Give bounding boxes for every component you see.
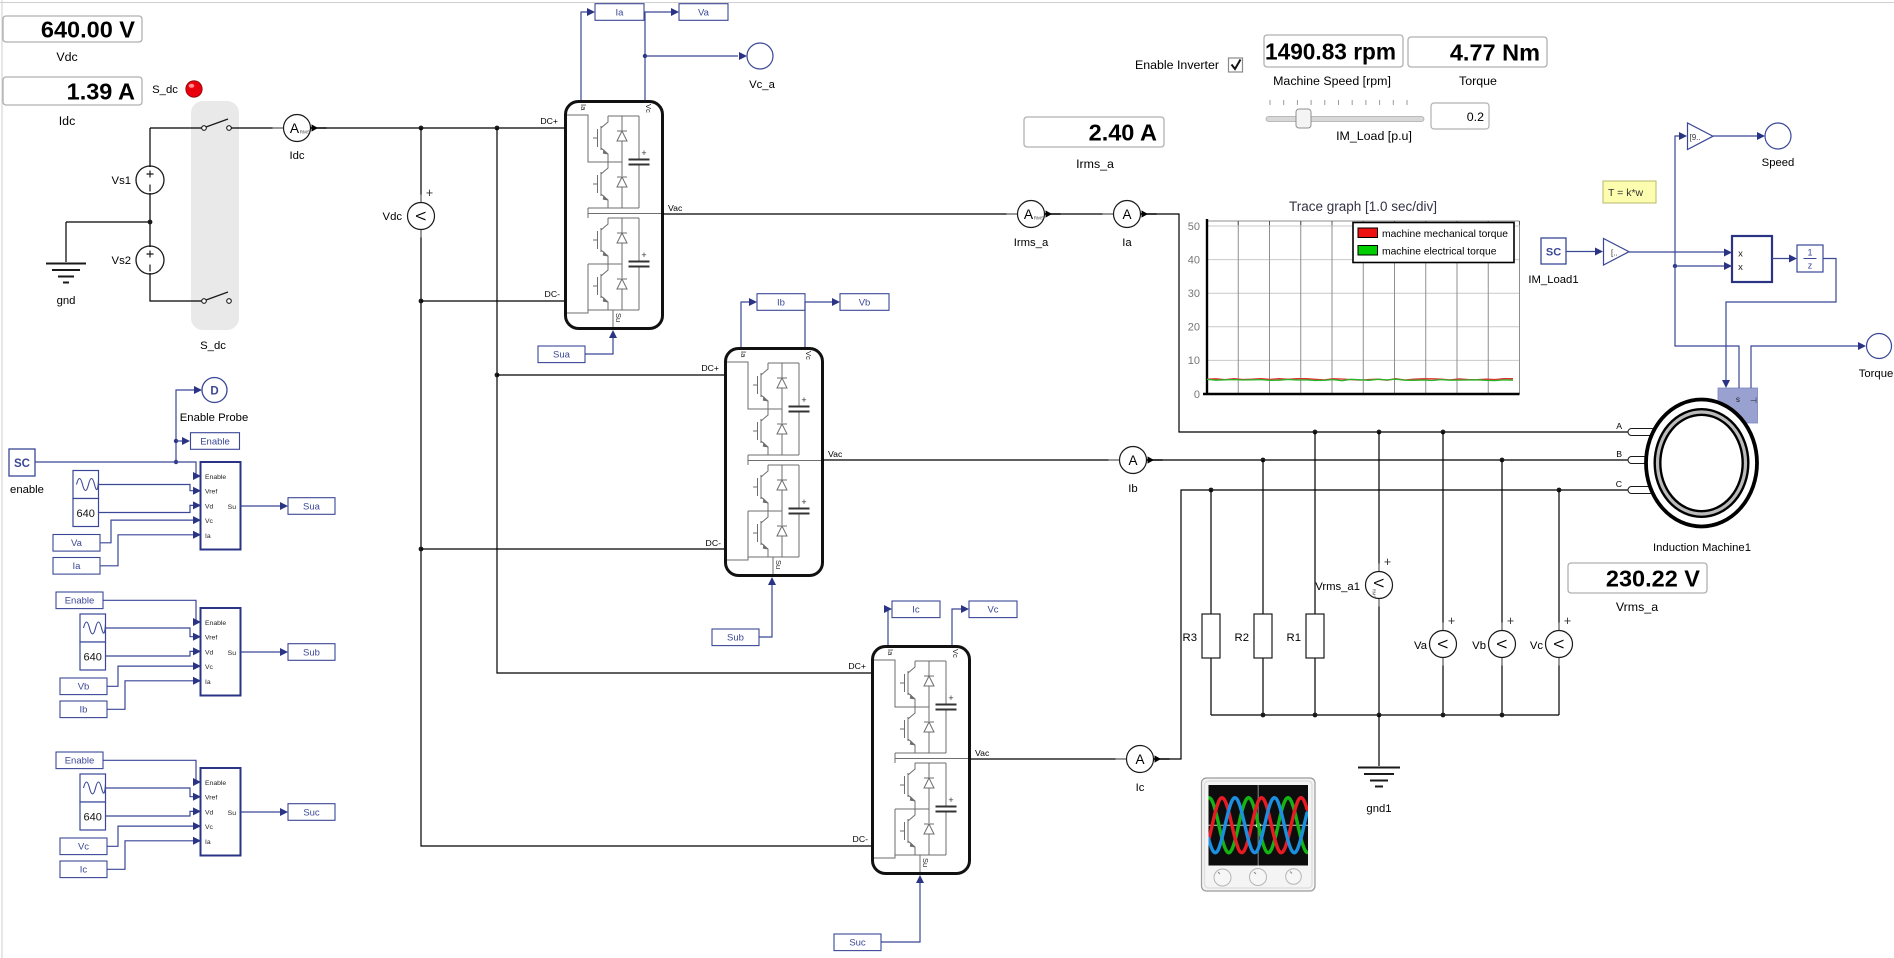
wire 640 to modulator C — [106, 811, 200, 816]
node A bus Va — [1441, 430, 1446, 435]
wire Vb to modulator B — [107, 666, 199, 686]
wire Enable to modulator B — [103, 600, 199, 622]
svg-text:S_dc: S_dc — [200, 340, 226, 352]
svg-text:Ic: Ic — [912, 605, 920, 616]
wire DC- bus leg A — [421, 300, 564, 302]
LED indicator red — [186, 81, 202, 97]
from tag Sub — [712, 629, 759, 646]
svg-text:1: 1 — [1807, 248, 1812, 258]
wire enable to tag — [176, 440, 182, 442]
arrow into Va tag — [671, 8, 679, 16]
wire R1 bottom — [1314, 658, 1316, 715]
inverter leg A (half-bridge block) — [566, 102, 663, 329]
wire IM_Load1 to gain — [1566, 251, 1596, 253]
arrow into Speed outport — [1757, 132, 1765, 140]
arrow modulator C Vref — [193, 793, 201, 801]
arrow modulator C enable — [193, 778, 201, 786]
node DC- leg B junction — [419, 547, 424, 552]
from tag Vb — [60, 678, 107, 695]
goto tag Ic — [892, 601, 940, 618]
svg-text:DC+: DC+ — [701, 363, 719, 373]
svg-text:V: V — [1435, 639, 1450, 648]
svg-text:RMS: RMS — [1034, 216, 1044, 221]
scope trace blue — [1209, 798, 1308, 853]
svg-text:0.2: 0.2 — [1467, 110, 1484, 124]
wire Vb meter branch — [1501, 460, 1503, 715]
source block SC enable — [9, 449, 35, 476]
svg-text:40: 40 — [1188, 254, 1200, 266]
svg-text:Vb: Vb — [859, 297, 871, 308]
wire sine to modulator B — [106, 628, 200, 637]
wire DC- bus leg B — [421, 548, 724, 550]
arrow modulator A Vref — [193, 487, 201, 495]
wire R3 bottom — [1210, 658, 1212, 715]
voltmeter Vc — [1546, 614, 1573, 666]
svg-text:R3: R3 — [1183, 632, 1197, 644]
svg-text:Vref: Vref — [205, 489, 217, 496]
svg-text:Ic: Ic — [80, 865, 88, 876]
svg-text:A: A — [1024, 207, 1034, 222]
wire Vac C to Ic meter — [970, 758, 1126, 760]
arrow into torque gain — [1595, 248, 1603, 256]
multiplier block — [1732, 236, 1772, 282]
svg-text:Vc: Vc — [78, 842, 89, 853]
svg-text:Enable: Enable — [205, 474, 226, 481]
svg-text:2.40 A: 2.40 A — [1089, 119, 1157, 145]
arrow into machine torque port — [1722, 380, 1730, 388]
svg-text:Vd: Vd — [205, 649, 214, 656]
svg-text:Ic: Ic — [1136, 782, 1145, 794]
svg-text:640: 640 — [77, 508, 95, 520]
trace green machine electrical torque — [1207, 379, 1513, 381]
from tag Ic — [60, 861, 107, 878]
svg-text:C: C — [1616, 479, 1622, 489]
svg-text:+: + — [1507, 614, 1514, 628]
probe D circle — [202, 378, 227, 403]
constant block IM_Load1 — [1528, 238, 1578, 286]
svg-text:Speed: Speed — [1762, 157, 1795, 169]
node A bus Vrms_a1 — [1377, 430, 1382, 435]
modulator block C — [201, 768, 241, 856]
outport Speed — [1765, 123, 1791, 149]
svg-text:Sub: Sub — [303, 647, 320, 658]
constant 640 Vd (A) — [73, 499, 99, 527]
node DC+ at Vdc meter — [419, 126, 424, 131]
wire delay feedback to machine torque — [1726, 259, 1836, 382]
arrow into Sua tag — [280, 502, 288, 510]
svg-text:SC: SC — [1546, 247, 1561, 259]
svg-text:Vc: Vc — [205, 824, 214, 831]
svg-text:A: A — [1135, 752, 1144, 767]
goto tag Ia — [595, 4, 644, 21]
node enable to tag — [174, 439, 178, 443]
node speed to multiplier — [1673, 264, 1677, 268]
wire Va to modulator A — [100, 520, 199, 543]
svg-text:Vc: Vc — [205, 664, 214, 671]
scope knobs — [1214, 869, 1301, 887]
svg-text:[9..: [9.. — [1690, 133, 1701, 142]
note T=k*w — [1603, 181, 1656, 203]
svg-text:gnd1: gnd1 — [1366, 803, 1391, 815]
svg-text:Enable Probe: Enable Probe — [180, 412, 248, 424]
svg-text:+: + — [426, 186, 433, 200]
svg-text:enable: enable — [10, 484, 44, 496]
wire modulator B output — [241, 651, 282, 653]
svg-text:V: V — [1551, 639, 1566, 648]
node DC- leg A junction — [419, 299, 424, 304]
svg-text:Enable: Enable — [205, 780, 226, 787]
svg-text:50: 50 — [1188, 221, 1200, 233]
inverter leg B (half-bridge block) — [726, 349, 823, 576]
arrow into Torque outport — [1858, 342, 1866, 350]
goto tag Vb — [840, 294, 889, 311]
wire Sua to leg A — [585, 336, 613, 354]
goto tag Enable — [191, 433, 240, 450]
svg-text:Enable Inverter: Enable Inverter — [1135, 58, 1219, 72]
svg-text:DC-: DC- — [853, 834, 869, 844]
svg-text:R1: R1 — [1287, 632, 1301, 644]
voltmeter Va — [1430, 614, 1457, 666]
arrow Suc into leg C Su — [916, 875, 924, 883]
svg-text:Suc: Suc — [303, 807, 320, 818]
wire leg A Vc vertical — [645, 12, 671, 100]
svg-text:x: x — [1738, 249, 1743, 260]
wire gnd to Vs junction — [66, 222, 149, 262]
from tag Vc — [60, 838, 107, 855]
svg-text:Su: Su — [228, 650, 237, 657]
svg-text:A: A — [1616, 421, 1622, 431]
node Vc_a branch — [643, 54, 647, 58]
modulator block B — [201, 608, 241, 696]
svg-text:+: + — [1384, 555, 1391, 569]
wire Ib meter to machine B — [1147, 459, 1629, 461]
svg-text:230.22 V: 230.22 V — [1606, 565, 1700, 591]
wire speed to multiplier — [1675, 265, 1724, 267]
arrow into Sub tag — [280, 648, 288, 656]
wire Vc meter branch — [1558, 490, 1560, 715]
svg-text:+: + — [1564, 614, 1571, 628]
svg-text:T = k*w: T = k*w — [1608, 187, 1644, 199]
wire Suc to leg C — [881, 881, 920, 942]
arrow into multiplier in2 — [1724, 262, 1732, 270]
wire 640 to modulator A — [99, 505, 200, 512]
inverter leg C (half-bridge block) — [873, 647, 970, 874]
arrow into speed gain — [1679, 132, 1687, 140]
arrow modulator B Vref — [193, 633, 201, 641]
wire R2 top — [1262, 460, 1264, 614]
from tag Ia — [53, 558, 100, 575]
svg-text:Vs2: Vs2 — [112, 255, 131, 267]
svg-text:B: B — [1616, 449, 1622, 459]
svg-text:Torque: Torque — [1459, 74, 1497, 88]
svg-text:z: z — [1808, 261, 1813, 271]
svg-text:Vd: Vd — [205, 809, 214, 816]
wire sine to modulator A — [99, 485, 200, 491]
wire Vc to modulator C — [107, 826, 199, 846]
svg-text:Vc: Vc — [1530, 640, 1544, 652]
outport Torque — [1867, 334, 1892, 359]
svg-text:Vdc: Vdc — [383, 211, 403, 223]
svg-text:D: D — [210, 386, 218, 398]
svg-text:Vb: Vb — [78, 682, 90, 693]
wire to scope Vc_a — [645, 55, 738, 57]
node B bus R2 — [1261, 458, 1266, 463]
svg-text:s: s — [1736, 396, 1740, 405]
arrow Sub into leg B Su — [768, 577, 776, 585]
display Machine Speed — [1264, 35, 1403, 88]
wire Vs1 to switch top — [150, 127, 203, 129]
gain block speed scale — [1688, 123, 1714, 150]
svg-text:640: 640 — [84, 652, 102, 664]
goto tag Sua — [288, 498, 335, 515]
arrow into Vc tag — [961, 605, 969, 613]
scope port Vc_a — [747, 43, 773, 69]
slider IM_Load ticks — [1270, 100, 1407, 105]
svg-text:Enable: Enable — [65, 596, 95, 607]
svg-text:Torque: Torque — [1859, 368, 1894, 380]
display Irms_a 2.40 A — [1024, 117, 1164, 171]
wire gnd1 stem — [1378, 715, 1380, 766]
wire R1 top — [1314, 432, 1316, 614]
svg-text:V: V — [413, 211, 428, 220]
machine stator port stub C — [1628, 487, 1655, 494]
ground gnd — [46, 264, 86, 308]
svg-text:Enable: Enable — [205, 620, 226, 627]
wire R3 top — [1210, 490, 1212, 614]
svg-text:1490.83 rpm: 1490.83 rpm — [1265, 38, 1396, 64]
arrow modulator C Ia — [193, 837, 201, 845]
svg-text:Idc: Idc — [289, 150, 304, 162]
wire Vac B to Ib meter — [823, 459, 1119, 461]
svg-text:Su: Su — [228, 504, 237, 511]
arrow into Ic tag — [884, 605, 892, 613]
slider value box 0.2 — [1431, 103, 1489, 129]
goto tag Suc — [288, 804, 335, 821]
svg-text:Ib: Ib — [777, 297, 785, 308]
delay block 1/z — [1797, 245, 1823, 272]
wire DC+ bus leg B — [497, 374, 724, 376]
node Vs midpoint — [148, 220, 153, 225]
wire modulator C output — [241, 811, 282, 813]
svg-text:Vac: Vac — [828, 449, 843, 459]
node DC+ leg B junction — [495, 373, 500, 378]
arrow into Vb tag — [832, 298, 840, 306]
goto tag Vc — [969, 601, 1017, 618]
svg-text:⊢: ⊢ — [1750, 396, 1757, 405]
checkbox Enable Inverter — [1229, 58, 1243, 72]
svg-text:10: 10 — [1188, 355, 1200, 367]
svg-text:Irms_a: Irms_a — [1076, 157, 1114, 171]
svg-text:A: A — [290, 121, 300, 136]
arrow modulator B Vc — [193, 662, 201, 670]
svg-text:Vb: Vb — [1472, 640, 1486, 652]
svg-text:DC+: DC+ — [848, 661, 866, 671]
voltage source Vs1 — [112, 166, 164, 194]
arrow modulator C Vc — [193, 822, 201, 830]
induction machine body — [1646, 400, 1757, 527]
scope trace green — [1209, 798, 1308, 853]
goto tag Va — [679, 4, 728, 21]
ammeter Ib — [1109, 447, 1163, 496]
wire switch to ammeter Idc — [231, 127, 284, 129]
wire machine speed out — [1675, 136, 1739, 388]
voltage source Vs2 — [112, 246, 164, 274]
svg-text:+: + — [1448, 614, 1455, 628]
wire gain to Speed outport — [1713, 135, 1758, 137]
resistor R1 — [1287, 614, 1324, 658]
svg-text:IM_Load [p.u]: IM_Load [p.u] — [1336, 129, 1412, 143]
svg-text:Sua: Sua — [553, 350, 571, 361]
arrow into delay — [1789, 255, 1797, 263]
wire Enable to modulator C — [103, 760, 199, 782]
wire leg B Ia to goto tag — [741, 302, 749, 347]
resistor R2 — [1235, 614, 1272, 658]
from tag Sua — [538, 346, 585, 363]
wire probe to enable net — [176, 390, 194, 462]
svg-text:Trace graph [1.0 sec/div]: Trace graph [1.0 sec/div] — [1289, 199, 1437, 214]
svg-text:RMS: RMS — [300, 130, 310, 135]
trace graph legend — [1353, 223, 1514, 263]
wire R2 bottom — [1262, 658, 1264, 715]
from tag Enable (C) — [56, 752, 103, 769]
constant 640 Vd (C) — [80, 802, 106, 830]
node star bus x1502 — [1500, 713, 1505, 718]
voltmeter Vb — [1489, 614, 1516, 666]
svg-text:Suc: Suc — [849, 938, 866, 949]
svg-text:[..: [.. — [1611, 249, 1618, 258]
svg-text:A: A — [1122, 207, 1131, 222]
sine generator Vref (A) — [73, 471, 99, 499]
svg-text:machine mechanical torque: machine mechanical torque — [1382, 229, 1508, 240]
wire Ia meter to machine A — [1141, 214, 1629, 432]
goto tag Sub — [288, 644, 335, 661]
ground gnd1 — [1358, 768, 1400, 816]
svg-text:Ia: Ia — [1122, 237, 1132, 249]
arrow into multiplier in1 — [1724, 249, 1732, 257]
wire 640 to modulator B — [106, 651, 200, 656]
svg-text:Ia: Ia — [616, 7, 625, 18]
ammeter Irms_a — [1007, 201, 1061, 250]
wire leg C Ia to goto tag — [886, 609, 888, 645]
wire Vac A to Irms meter — [663, 213, 1017, 215]
wire DC+ bus to leg A — [311, 127, 565, 129]
svg-text:Enable: Enable — [200, 436, 230, 447]
wire Irms to Ia meter — [1045, 213, 1114, 215]
svg-text:Vac: Vac — [668, 203, 683, 213]
wire Vs2 to switch bottom — [150, 273, 203, 301]
node star bus x1315 — [1313, 713, 1318, 718]
from tag Ib — [60, 701, 107, 718]
machine stator port stub A — [1628, 429, 1655, 436]
svg-text:V: V — [1371, 578, 1386, 587]
svg-text:IM_Load1: IM_Load1 — [1528, 274, 1578, 286]
arrow into Enable tag — [182, 437, 190, 445]
svg-text:Machine Speed [rpm]: Machine Speed [rpm] — [1273, 74, 1391, 88]
display Torque Nm — [1408, 37, 1547, 88]
arrow into Ia tag — [587, 8, 595, 16]
svg-text:V: V — [1494, 639, 1509, 648]
switch S_dc block body — [191, 101, 239, 330]
wire star point bus — [1211, 714, 1559, 716]
node C bus R3 — [1209, 488, 1214, 493]
svg-text:640: 640 — [84, 812, 102, 824]
svg-text:x: x — [1738, 262, 1743, 273]
svg-text:Vref: Vref — [205, 795, 217, 802]
arrow modulator A enable — [193, 472, 201, 480]
wire Va meter branch — [1442, 432, 1444, 715]
arrow modulator A Vd — [193, 501, 201, 509]
sine generator Vref (B) — [80, 614, 106, 642]
wire machine torque out — [1751, 346, 1859, 388]
svg-text:Su: Su — [228, 810, 237, 817]
wire modulator A output — [241, 505, 282, 507]
svg-text:DC-: DC- — [545, 289, 561, 299]
svg-text:Vrms_a: Vrms_a — [1616, 600, 1658, 614]
svg-text:Vc_a: Vc_a — [749, 79, 775, 91]
wire multiplier to delay — [1772, 258, 1790, 260]
svg-text:RMS: RMS — [1372, 589, 1377, 599]
display Vrms_a 230.22 V — [1568, 563, 1707, 614]
wire Ib to modulator B — [107, 681, 199, 710]
svg-text:machine electrical torque: machine electrical torque — [1382, 247, 1497, 258]
node enable junction — [174, 460, 178, 464]
node C bus Vc — [1557, 488, 1562, 493]
svg-text:0: 0 — [1194, 389, 1200, 401]
svg-text:Va: Va — [1414, 640, 1428, 652]
svg-text:1.39 A: 1.39 A — [67, 78, 135, 104]
arrow modulator C Vd — [193, 807, 201, 815]
slider IM_Load track — [1266, 109, 1424, 128]
trace graph plot area — [1188, 219, 1520, 401]
svg-text:Vd: Vd — [205, 503, 214, 510]
svg-text:Sub: Sub — [727, 633, 744, 644]
wire Ic meter to machine C — [1154, 490, 1629, 759]
voltmeter Vdc — [408, 186, 435, 238]
svg-text:Vc: Vc — [987, 605, 998, 616]
arrow into Suc tag — [280, 808, 288, 816]
svg-text:20: 20 — [1188, 322, 1200, 334]
wire Vs1 branch — [149, 128, 151, 247]
arrow modulator B Vd — [193, 647, 201, 655]
voltmeter Vrms_a1 — [1366, 555, 1393, 607]
arrow into Ib tag — [749, 298, 757, 306]
svg-text:Vs1: Vs1 — [112, 175, 131, 187]
svg-text:Ia: Ia — [205, 533, 211, 540]
svg-text:Va: Va — [71, 538, 83, 549]
node B bus Vb — [1500, 458, 1505, 463]
node A bus R1 — [1313, 430, 1318, 435]
svg-text:Vdc: Vdc — [56, 50, 77, 64]
node star bus x1443 — [1441, 713, 1446, 718]
svg-text:gnd: gnd — [57, 295, 76, 307]
wire DC+ branch vertical — [497, 128, 871, 673]
svg-text:Vrms_a1: Vrms_a1 — [1315, 581, 1360, 593]
wire Vrms_a1 branch — [1378, 432, 1380, 715]
node star bus x1263 — [1261, 713, 1266, 718]
display Idc 1.39 A — [3, 77, 142, 128]
svg-text:4.77 Nm: 4.77 Nm — [1450, 39, 1540, 65]
ammeter Ic — [1116, 746, 1170, 795]
svg-text:30: 30 — [1188, 288, 1200, 300]
svg-text:Idc: Idc — [59, 114, 76, 128]
node DC+ at leg B branch — [495, 126, 500, 131]
arrow into probe D — [194, 386, 202, 394]
wire gain to multiplier — [1629, 251, 1724, 253]
arrow Sua into leg A Su — [609, 330, 617, 338]
svg-text:Vref: Vref — [205, 635, 217, 642]
svg-text:Ia: Ia — [205, 679, 211, 686]
machine stator port stub B — [1628, 457, 1655, 464]
